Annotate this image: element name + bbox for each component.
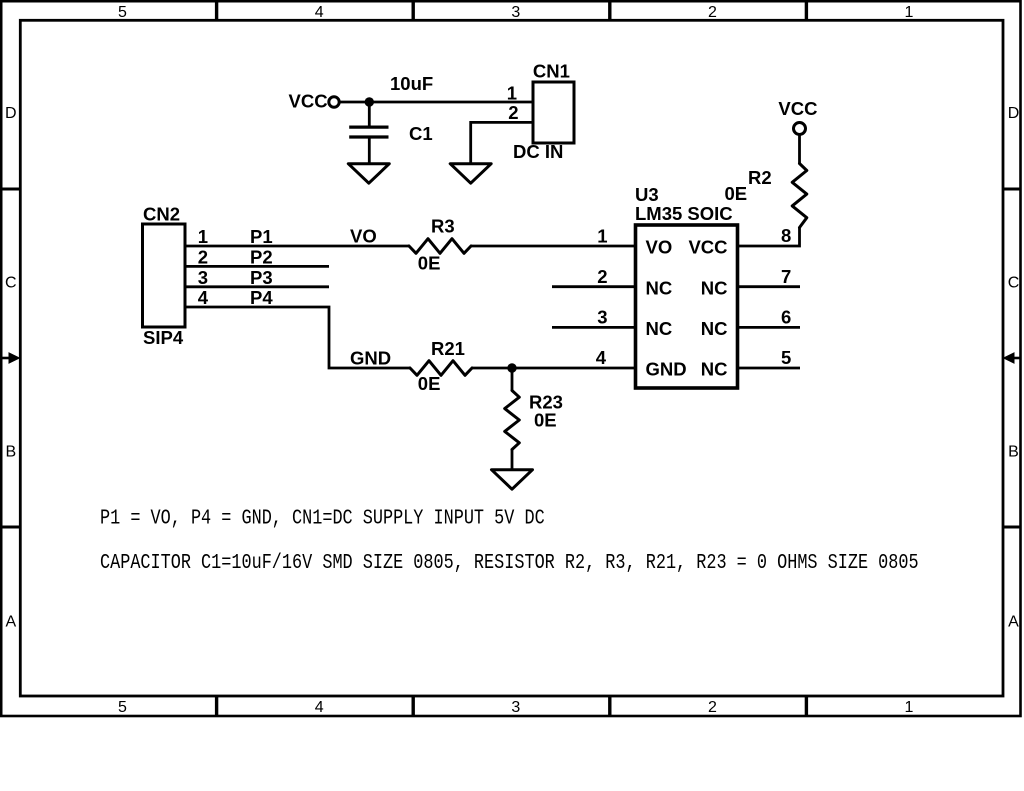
svg-text:VO: VO (350, 226, 377, 247)
svg-text:DC IN: DC IN (513, 141, 563, 162)
svg-text:2: 2 (597, 266, 607, 287)
U3 pin 5 stub (738, 367, 801, 370)
svg-text:0E: 0E (418, 373, 441, 394)
wire CN2 pin 4 to GND row (185, 307, 410, 368)
svg-text:LM35 SOIC: LM35 SOIC (635, 203, 733, 224)
wire CN2 pin 3 stub (185, 285, 329, 288)
svg-text:R21: R21 (431, 338, 465, 359)
svg-text:NC: NC (701, 318, 728, 339)
svg-text:U3: U3 (635, 184, 659, 205)
ground symbol under R23 (492, 470, 533, 490)
resistor R3 (409, 239, 471, 254)
svg-text:D: D (5, 105, 17, 122)
svg-text:P3: P3 (250, 267, 273, 288)
svg-text:5: 5 (781, 347, 791, 368)
svg-text:C: C (1008, 275, 1020, 292)
ground symbol under CN1 pin 2 (450, 164, 491, 184)
svg-text:8: 8 (781, 225, 791, 246)
VCC terminal circle (top right) (794, 123, 806, 135)
svg-text:2: 2 (508, 102, 518, 123)
CN2 connector box (143, 224, 186, 327)
wire R2 to U3 pin 8 (738, 228, 800, 247)
wire junction to R23 (511, 368, 514, 391)
svg-text:4: 4 (315, 4, 324, 21)
svg-text:3: 3 (511, 4, 520, 21)
svg-text:10uF: 10uF (390, 73, 433, 94)
svg-text:1: 1 (905, 699, 914, 716)
svg-text:1: 1 (905, 4, 914, 21)
ground symbol under C1 (348, 164, 389, 184)
VCC terminal circle (left) (329, 97, 339, 107)
svg-text:0E: 0E (418, 252, 441, 273)
svg-text:C1: C1 (409, 123, 433, 144)
U3 pin 3 stub (552, 326, 636, 329)
svg-text:VCC: VCC (289, 91, 328, 112)
svg-text:P1 = VO, P4 = GND, CN1=DC SUPP: P1 = VO, P4 = GND, CN1=DC SUPPLY INPUT 5… (100, 506, 545, 530)
svg-text:D: D (1008, 105, 1020, 122)
svg-text:4: 4 (315, 699, 324, 716)
svg-text:NC: NC (646, 318, 673, 339)
svg-text:P1: P1 (250, 226, 273, 247)
svg-text:P2: P2 (250, 246, 273, 267)
svg-text:3: 3 (597, 307, 607, 328)
svg-text:B: B (1008, 443, 1019, 460)
svg-text:NC: NC (701, 359, 728, 380)
frame left tick B/A (1, 526, 20, 529)
svg-text:B: B (5, 443, 16, 460)
svg-text:5: 5 (118, 699, 127, 716)
frame top tick 4/3 (412, 1, 415, 20)
svg-text:4: 4 (596, 347, 607, 368)
frame bottom tick 2/1 (805, 696, 808, 716)
svg-text:3: 3 (511, 699, 520, 716)
svg-text:P4: P4 (250, 287, 273, 308)
wire R3 to U3 pin 1 (471, 245, 636, 248)
svg-text:SIP4: SIP4 (143, 327, 184, 348)
svg-text:GND: GND (646, 359, 687, 380)
wire junction to C1 (368, 102, 371, 127)
CN1 connector box (533, 82, 574, 143)
capacitor C1 bottom plate (349, 135, 388, 138)
wire CN2 pin 2 stub (185, 265, 329, 268)
svg-text:CN1: CN1 (533, 61, 570, 82)
svg-text:4: 4 (198, 287, 209, 308)
U3 pin 6 stub (738, 326, 801, 329)
frame left tick D/C (1, 188, 20, 191)
frame top tick 3/2 (608, 1, 611, 20)
svg-text:7: 7 (781, 266, 791, 287)
svg-text:GND: GND (350, 348, 391, 369)
frame bottom tick 4/3 (412, 696, 415, 716)
svg-text:VCC: VCC (778, 98, 817, 119)
resistor R23 (505, 391, 520, 450)
wire CN2 pin 1 to R3 (185, 245, 409, 248)
frame bottom tick 5/4 (215, 696, 218, 716)
svg-text:2: 2 (708, 699, 717, 716)
frame left center arrow (1, 357, 11, 360)
junction dot GND/R23 (507, 363, 516, 372)
frame top tick 2/1 (805, 1, 808, 20)
svg-text:A: A (1008, 614, 1019, 631)
svg-text:R3: R3 (431, 216, 455, 237)
junction dot VCC/C1 (365, 97, 374, 106)
svg-text:2: 2 (198, 246, 208, 267)
wire VCC terminal to CN1 pin 1 (340, 101, 534, 104)
svg-text:VCC: VCC (688, 237, 727, 258)
svg-text:1: 1 (198, 226, 208, 247)
svg-text:3: 3 (198, 267, 208, 288)
wire R21 to U3 pin 4 (472, 367, 636, 370)
svg-text:1: 1 (597, 226, 607, 247)
wire VCC terminal to R2 (798, 135, 801, 164)
svg-text:6: 6 (781, 307, 791, 328)
svg-text:NC: NC (701, 277, 728, 298)
frame bottom tick 3/2 (608, 696, 611, 716)
svg-text:1: 1 (507, 83, 517, 104)
resistor R2 (792, 164, 807, 228)
U3 pin 7 stub (738, 285, 801, 288)
resistor R21 (410, 361, 472, 376)
svg-text:CAPACITOR C1=10uF/16V SMD SIZE: CAPACITOR C1=10uF/16V SMD SIZE 0805, RES… (100, 550, 919, 574)
frame right center arrow (1012, 357, 1022, 360)
svg-text:VO: VO (646, 237, 673, 258)
wire C1 to ground (368, 137, 371, 164)
wire CN1 pin 2 to ground (471, 122, 533, 164)
svg-text:CN2: CN2 (143, 204, 180, 225)
capacitor C1 top plate (349, 125, 388, 128)
svg-text:A: A (5, 614, 16, 631)
wire R23 to ground (511, 450, 514, 471)
U3 pin 2 stub (552, 285, 636, 288)
svg-text:0E: 0E (725, 183, 748, 204)
svg-text:C: C (5, 275, 17, 292)
frame right tick B/A (1003, 526, 1022, 529)
svg-text:NC: NC (646, 277, 673, 298)
frame top tick 5/4 (215, 1, 218, 20)
svg-text:0E: 0E (534, 409, 557, 430)
U3 chip box (636, 225, 738, 388)
svg-text:2: 2 (708, 4, 717, 21)
svg-text:R2: R2 (748, 167, 772, 188)
frame right tick D/C (1003, 188, 1022, 191)
svg-text:5: 5 (118, 4, 127, 21)
